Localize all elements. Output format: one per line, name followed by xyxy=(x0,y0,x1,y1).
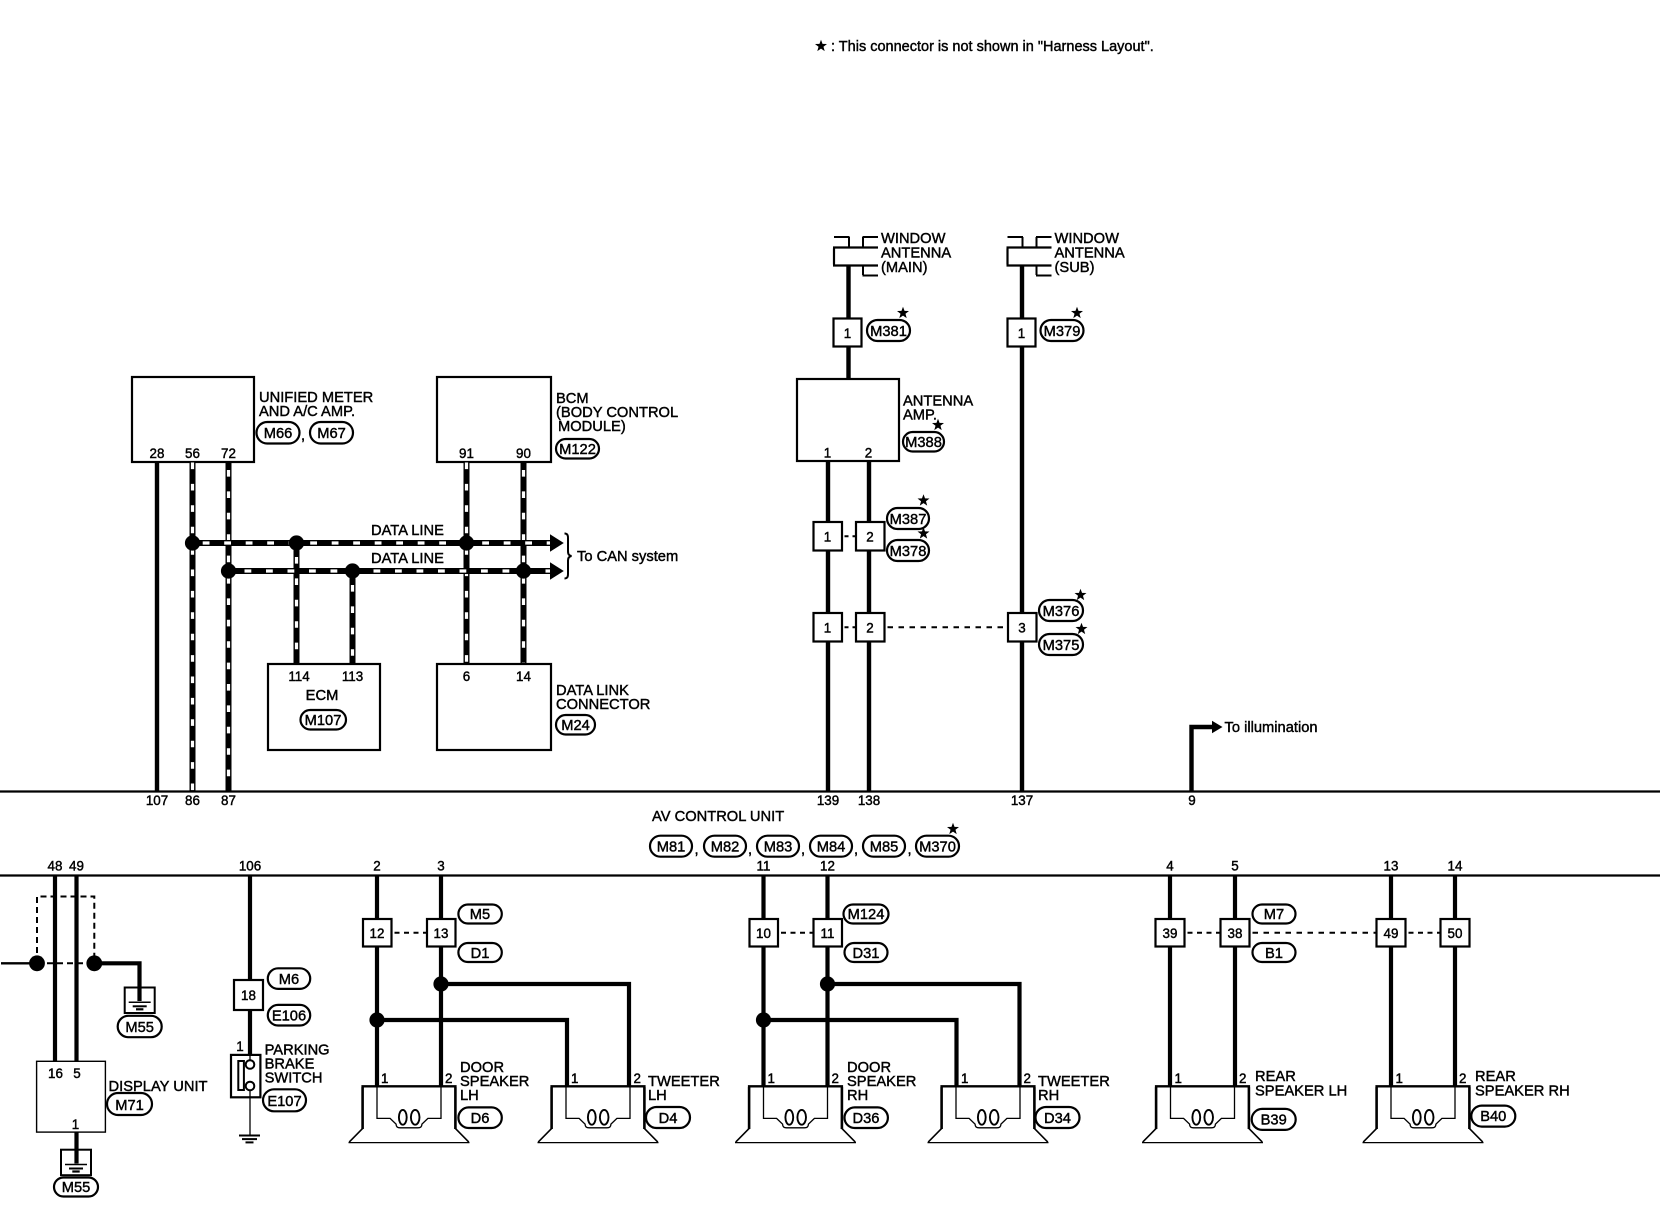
junction dot wire56/line1 xyxy=(185,535,200,550)
svg-text:14: 14 xyxy=(1448,859,1463,874)
svg-text:14: 14 xyxy=(516,669,531,684)
connector M55 xyxy=(118,1016,162,1037)
svg-text:1: 1 xyxy=(72,1117,79,1132)
svg-text:28: 28 xyxy=(150,446,165,461)
rear speaker RH symbol xyxy=(1363,1086,1484,1142)
connector M370 xyxy=(916,836,959,857)
svg-text:ECM: ECM xyxy=(306,688,339,704)
connector B40 xyxy=(1471,1106,1515,1127)
window antenna (MAIN) symbol xyxy=(833,237,878,276)
svg-text:E106: E106 xyxy=(272,1009,306,1025)
svg-text:1: 1 xyxy=(844,326,851,341)
wire amp pin2 down xyxy=(867,461,871,522)
switch contact top xyxy=(249,1055,251,1060)
wire connector1 to antenna amp xyxy=(846,347,850,380)
wire 3 down xyxy=(439,876,443,920)
wire 2 down xyxy=(375,876,379,920)
junction dot ECM113/line2 xyxy=(345,563,360,578)
connector E107 xyxy=(263,1089,306,1111)
switch contact bottom xyxy=(246,1082,255,1091)
svg-text:M122: M122 xyxy=(559,442,596,458)
brace to CAN system xyxy=(565,534,572,579)
ground M55 (box) 2 xyxy=(61,1150,91,1176)
connector M71 xyxy=(107,1093,152,1115)
door speaker RH symbol xyxy=(735,1086,856,1142)
svg-text:D6: D6 xyxy=(471,1111,490,1127)
svg-text:M66: M66 xyxy=(264,426,293,442)
svg-text:LH: LH xyxy=(460,1088,479,1104)
junction dot BCM91/line1 xyxy=(459,535,474,550)
dashed link 49-50 xyxy=(1407,932,1440,934)
svg-text:114: 114 xyxy=(288,669,310,684)
connector E106 xyxy=(268,1005,310,1026)
svg-text:91: 91 xyxy=(459,446,474,461)
svg-text:1: 1 xyxy=(1175,1071,1182,1086)
connector D1 xyxy=(458,943,501,962)
wire 18 to parking brake switch xyxy=(248,1010,252,1055)
connector M381 xyxy=(867,320,910,341)
svg-text:107: 107 xyxy=(146,793,168,808)
wire 13: box49 to rear speaker RH pin1 xyxy=(1389,947,1393,1087)
wire ECM 114 (shielded dash) xyxy=(294,543,300,664)
svg-text:10: 10 xyxy=(756,926,771,941)
wire 72 to 87 (shielded dash) xyxy=(226,462,232,791)
shield ground wire right segment xyxy=(94,963,139,987)
junction dot ECM114/line1 xyxy=(289,535,304,550)
svg-text:M82: M82 xyxy=(711,840,740,856)
dashed link 38-49 xyxy=(1251,932,1376,934)
connector box 39 xyxy=(1156,919,1185,947)
AV control unit top edge xyxy=(0,790,1660,792)
svg-text:2: 2 xyxy=(445,1071,452,1086)
wire sub antenna down through box3 to 137 xyxy=(1020,347,1024,614)
connector box 50 xyxy=(1441,919,1470,947)
svg-text:2: 2 xyxy=(866,530,873,545)
wire to tweeter LH pin1 xyxy=(377,1020,567,1086)
svg-text:11: 11 xyxy=(757,859,771,874)
dashed link 10-11 xyxy=(779,932,813,934)
svg-text:2: 2 xyxy=(832,1071,839,1086)
svg-text:12: 12 xyxy=(820,859,835,874)
connector M5 xyxy=(458,905,501,924)
data line 1 (CAN) xyxy=(193,540,553,546)
svg-text:3: 3 xyxy=(1018,621,1025,636)
svg-text:M381: M381 xyxy=(870,324,907,340)
svg-text:,: , xyxy=(301,428,305,444)
svg-text:(MAIN): (MAIN) xyxy=(881,260,928,276)
wire amp pin1 down xyxy=(826,461,830,522)
note star xyxy=(815,40,827,51)
wire 14: box50 to rear speaker RH pin2 xyxy=(1453,947,1457,1087)
svg-text:1: 1 xyxy=(768,1071,775,1086)
tweeter RH symbol xyxy=(928,1086,1049,1142)
svg-text:AV CONTROL UNIT: AV CONTROL UNIT xyxy=(652,809,784,825)
svg-text:DATA LINE: DATA LINE xyxy=(371,551,444,567)
connector box 1 (M379) xyxy=(1008,319,1036,347)
dashed link pair2 box2 to box3 xyxy=(844,626,856,628)
connector box 49 xyxy=(1377,919,1406,947)
wire BCM 91 to DLC 6 (shielded dash) xyxy=(464,462,470,664)
svg-text:M55: M55 xyxy=(125,1020,154,1036)
svg-text:D31: D31 xyxy=(853,946,880,962)
svg-text:D4: D4 xyxy=(659,1111,678,1127)
wire pin1 pair1 to pair2 xyxy=(826,551,830,614)
connector B39 xyxy=(1252,1109,1296,1130)
AV control unit bottom edge xyxy=(0,874,1660,876)
wire 12: box11 to speaker pin2 xyxy=(825,947,829,1087)
wire 13 down xyxy=(1389,876,1393,920)
wire 4 down xyxy=(1168,876,1172,920)
svg-text:87: 87 xyxy=(221,793,236,808)
svg-text:B40: B40 xyxy=(1480,1109,1506,1125)
unified meter and A/C amp box xyxy=(132,377,254,462)
connector box 2 (M387 pair) xyxy=(856,522,885,551)
connector box 1 (M381) xyxy=(834,319,862,347)
svg-text:RH: RH xyxy=(1038,1088,1059,1104)
connector box 1 (pair2) xyxy=(814,613,843,642)
svg-text:M370: M370 xyxy=(919,840,956,856)
junction dot shield right xyxy=(86,955,102,971)
junction dot wire12/tweeter xyxy=(820,976,835,991)
connector M378 xyxy=(887,540,929,561)
svg-text:16: 16 xyxy=(48,1066,63,1081)
shield ground wire left segment xyxy=(1,962,37,964)
tweeter LH symbol xyxy=(538,1086,659,1142)
svg-text:56: 56 xyxy=(185,446,200,461)
svg-text:13: 13 xyxy=(1384,859,1399,874)
svg-text:2: 2 xyxy=(1024,1071,1031,1086)
connector box 12 xyxy=(363,919,392,947)
svg-text:M5: M5 xyxy=(470,907,490,923)
svg-text:AMP.: AMP. xyxy=(903,408,937,424)
svg-text:6: 6 xyxy=(463,669,470,684)
svg-text:2: 2 xyxy=(1239,1071,1246,1086)
svg-text:M376: M376 xyxy=(1043,604,1080,620)
connector M387 xyxy=(887,508,929,529)
wire 12 down xyxy=(825,876,829,920)
svg-text:11: 11 xyxy=(821,926,835,941)
junction dot BCM90/line2 xyxy=(516,563,531,578)
connector M83 xyxy=(757,836,799,857)
wire 28 to 107 (solid) xyxy=(155,462,159,791)
door speaker LH symbol xyxy=(349,1086,470,1142)
display unit box xyxy=(37,1061,106,1132)
ground (parking brake) xyxy=(239,1136,260,1143)
wire 11: box10 to speaker pin1 xyxy=(761,947,765,1087)
svg-text:49: 49 xyxy=(69,859,84,874)
junction dot wire72/line2 xyxy=(221,563,236,578)
wire switch to ground xyxy=(249,1090,251,1134)
wire 139 down to AV unit xyxy=(826,642,830,792)
wire to tweeter RH pin1 xyxy=(764,1020,957,1086)
connector M67 xyxy=(310,422,353,444)
connector M124 xyxy=(844,905,889,924)
svg-text:113: 113 xyxy=(342,669,363,684)
svg-text:,: , xyxy=(748,842,752,858)
svg-text:2: 2 xyxy=(1459,1071,1466,1086)
svg-text:LH: LH xyxy=(648,1088,667,1104)
data line 2 (CAN) xyxy=(229,568,553,574)
svg-text:2: 2 xyxy=(634,1071,641,1086)
svg-text:3: 3 xyxy=(437,859,444,874)
connector M81 xyxy=(650,836,692,857)
connector D6 xyxy=(458,1107,501,1128)
svg-text:1: 1 xyxy=(381,1071,388,1086)
wire 138 down to AV unit xyxy=(867,642,871,792)
connector M7 xyxy=(1253,905,1296,924)
to illumination arrow wire pin 9 xyxy=(1192,727,1213,791)
connector M6 xyxy=(268,968,310,989)
svg-text:M107: M107 xyxy=(305,713,342,729)
connector box 11 xyxy=(814,919,843,947)
wire antenna sub to connector 1 xyxy=(1020,265,1024,319)
connector M24 xyxy=(556,715,595,735)
svg-text:To CAN system: To CAN system xyxy=(577,549,678,565)
svg-text:1: 1 xyxy=(236,1039,243,1054)
svg-text:49: 49 xyxy=(1384,926,1399,941)
wire BCM 90 to DLC 14 (shielded dash) xyxy=(521,462,527,664)
connector box 2 (pair2) xyxy=(856,613,885,642)
connector box 3 (M376/M375) xyxy=(1008,613,1037,642)
parking brake switch box xyxy=(231,1055,260,1097)
wire 5 down xyxy=(1233,876,1237,920)
svg-text:86: 86 xyxy=(185,793,200,808)
dashed link 12-13 xyxy=(393,932,427,934)
wire 4: box39 to rear speaker LH pin1 xyxy=(1168,947,1172,1087)
svg-text:139: 139 xyxy=(817,793,839,808)
svg-text:12: 12 xyxy=(370,926,385,941)
wire pin2 pair1 to pair2 xyxy=(867,551,871,614)
svg-text:D36: D36 xyxy=(853,1111,880,1127)
svg-text:106: 106 xyxy=(239,859,261,874)
data link connector box xyxy=(437,664,551,750)
switch lever bar xyxy=(238,1061,244,1090)
svg-text:2: 2 xyxy=(373,859,380,874)
connector box 10 xyxy=(750,919,779,947)
svg-text:D1: D1 xyxy=(471,946,490,962)
wire ECM 113 (shielded dash) xyxy=(350,571,356,664)
svg-text:M84: M84 xyxy=(817,840,846,856)
connector D34 xyxy=(1036,1107,1080,1128)
svg-text:M55: M55 xyxy=(62,1180,91,1196)
svg-text:To illumination: To illumination xyxy=(1225,720,1318,736)
svg-text:,: , xyxy=(908,842,912,858)
svg-text:1: 1 xyxy=(824,621,831,636)
svg-text:5: 5 xyxy=(1231,859,1238,874)
svg-text:D34: D34 xyxy=(1044,1111,1071,1127)
svg-text:(SUB): (SUB) xyxy=(1055,260,1095,276)
svg-text:M7: M7 xyxy=(1264,907,1284,923)
shield dashed box xyxy=(37,897,94,964)
svg-text:1: 1 xyxy=(1018,326,1025,341)
junction dot wire2/tweeter xyxy=(369,1012,384,1027)
svg-text:M379: M379 xyxy=(1044,324,1081,340)
wire to tweeter RH pin2 xyxy=(828,984,1020,1086)
svg-text:M85: M85 xyxy=(870,840,899,856)
svg-text:M71: M71 xyxy=(115,1098,144,1114)
wire 2: box12 to speaker pin1 xyxy=(375,947,379,1087)
svg-text:50: 50 xyxy=(1448,926,1463,941)
svg-text:,: , xyxy=(801,842,805,858)
svg-text:90: 90 xyxy=(516,446,531,461)
svg-text:M24: M24 xyxy=(561,718,590,734)
connector box 1 (M387 pair) xyxy=(814,522,843,551)
svg-text:CONNECTOR: CONNECTOR xyxy=(556,697,650,713)
svg-text:9: 9 xyxy=(1188,793,1195,808)
connector D31 xyxy=(845,943,888,962)
svg-text:M67: M67 xyxy=(317,426,346,442)
connector box 38 xyxy=(1221,919,1250,947)
svg-text:M124: M124 xyxy=(848,907,885,923)
svg-text:SPEAKER LH: SPEAKER LH xyxy=(1255,1084,1347,1100)
shield ground dashed bottom xyxy=(37,962,94,964)
svg-text:,: , xyxy=(695,842,699,858)
svg-text:M388: M388 xyxy=(905,435,942,451)
svg-text:18: 18 xyxy=(241,988,256,1003)
svg-text:M81: M81 xyxy=(657,840,686,856)
connector M85 xyxy=(863,836,905,857)
svg-text:2: 2 xyxy=(865,446,872,461)
svg-text:M378: M378 xyxy=(890,544,927,560)
svg-text:RH: RH xyxy=(847,1088,868,1104)
connector box 18 xyxy=(234,980,263,1010)
wire 48 to display 16 xyxy=(53,876,57,1062)
svg-text:137: 137 xyxy=(1011,793,1033,808)
svg-text:,: , xyxy=(854,842,858,858)
svg-text:M375: M375 xyxy=(1043,638,1080,654)
connector M379 xyxy=(1041,320,1084,341)
wire to tweeter LH pin2 xyxy=(441,984,629,1086)
svg-text:1: 1 xyxy=(824,446,831,461)
connector M84 xyxy=(810,836,852,857)
connector M388 xyxy=(903,432,944,452)
wire 5: box38 to rear speaker LH pin2 xyxy=(1233,947,1237,1087)
connector M55 (2) xyxy=(54,1178,98,1197)
svg-text:B39: B39 xyxy=(1261,1113,1287,1129)
svg-text:1: 1 xyxy=(961,1071,968,1086)
junction dot wire11/tweeter xyxy=(756,1012,771,1027)
wire 106 to E106 18 xyxy=(248,876,252,981)
dashed link 1-2 xyxy=(844,535,856,537)
svg-text:M6: M6 xyxy=(279,972,299,988)
svg-text:E107: E107 xyxy=(267,1094,301,1110)
svg-text:SWITCH: SWITCH xyxy=(265,1071,323,1087)
wire 49 to display 5 xyxy=(74,876,78,1062)
svg-text:1: 1 xyxy=(824,530,831,545)
ground M55 (box) xyxy=(125,988,155,1014)
connector M66 xyxy=(257,422,300,444)
connector M376 xyxy=(1039,600,1083,621)
svg-text:48: 48 xyxy=(48,859,63,874)
dashed link 39-38 xyxy=(1186,932,1220,934)
connector box 13 xyxy=(427,919,456,947)
wire 56 to 86 (shielded dash) xyxy=(190,462,196,791)
junction dot shield left xyxy=(29,955,45,971)
svg-text:SPEAKER RH: SPEAKER RH xyxy=(1475,1084,1570,1100)
svg-text:MODULE): MODULE) xyxy=(558,419,626,435)
ECM box xyxy=(268,664,380,750)
wire 11 down xyxy=(761,876,765,920)
svg-text:4: 4 xyxy=(1166,859,1174,874)
wire 14 down xyxy=(1453,876,1457,920)
connector D4 xyxy=(646,1107,690,1128)
connector M122 xyxy=(556,439,599,459)
BCM body control module box xyxy=(437,377,551,462)
svg-text:2: 2 xyxy=(866,621,873,636)
svg-text:1: 1 xyxy=(571,1071,578,1086)
connector B1 xyxy=(1253,943,1296,962)
svg-text:M387: M387 xyxy=(890,512,927,528)
window antenna (SUB) symbol xyxy=(1007,237,1052,276)
connector D36 xyxy=(845,1107,888,1128)
svg-text:B1: B1 xyxy=(1265,946,1283,962)
svg-text:138: 138 xyxy=(858,793,880,808)
svg-text:DATA LINE: DATA LINE xyxy=(371,523,444,539)
svg-text:M83: M83 xyxy=(764,840,793,856)
svg-text:39: 39 xyxy=(1163,926,1178,941)
wire 3: box13 to speaker pin2 xyxy=(439,947,443,1087)
antenna amp box xyxy=(797,379,899,461)
connector M375 xyxy=(1039,634,1083,655)
svg-text:72: 72 xyxy=(221,446,236,461)
svg-text:AND A/C AMP.: AND A/C AMP. xyxy=(259,404,355,420)
svg-text:: This connector is not shown: : This connector is not shown in "Harnes… xyxy=(831,39,1154,55)
connector M82 xyxy=(704,836,746,857)
connector M107 xyxy=(301,710,347,730)
wire antenna main to connector 1 xyxy=(846,265,850,319)
wire display 1 to ground xyxy=(74,1132,78,1150)
svg-text:5: 5 xyxy=(73,1066,80,1081)
rear speaker LH symbol xyxy=(1142,1086,1263,1142)
svg-text:38: 38 xyxy=(1228,926,1243,941)
svg-text:13: 13 xyxy=(434,926,449,941)
junction dot wire3/tweeter xyxy=(433,976,448,991)
svg-text:1: 1 xyxy=(1396,1071,1403,1086)
